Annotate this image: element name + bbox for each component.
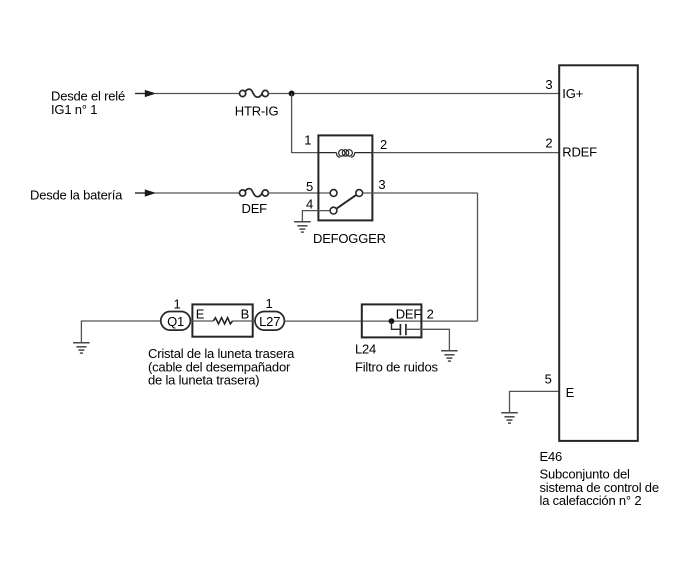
svg-text:E: E [196, 306, 205, 321]
wire: fuse DEF to DEFOGGER pin 5 contact [268, 192, 330, 194]
ground: rear window glass return (left) [73, 343, 90, 353]
resistor: zigzag element [213, 318, 232, 324]
wire: arrow to fuse HTR-IG [155, 93, 240, 95]
junction: capacitor tap inside L24 [389, 318, 395, 324]
wire: DEFOGGER pin 3 to vertical drop [363, 192, 478, 194]
text: Cristal de la luneta trasera (cable del desempañador de la luneta trasera) [148, 346, 295, 388]
svg-text:L24: L24 [355, 341, 376, 356]
svg-text:E46: E46 [540, 449, 563, 464]
svg-text:3: 3 [378, 177, 385, 192]
svg-text:E: E [566, 385, 575, 400]
wire: fuse HTR-IG to E46 pin 3 IG+ [268, 93, 558, 95]
ground: DEFOGGER pin 4 [294, 222, 311, 232]
svg-text:4: 4 [306, 196, 313, 211]
wire: L27 to noise filter L24 and through to pin 3 drop [284, 320, 477, 322]
wire: capacitor to ground [407, 329, 450, 350]
wire: resistor to connector L27 [233, 320, 256, 322]
svg-text:DEF: DEF [396, 306, 422, 321]
junction: node after HTR-IG fuse [289, 91, 295, 97]
svg-text:1: 1 [304, 133, 311, 148]
relay DEFOGGER box [318, 135, 372, 220]
ground: L24 noise filter [441, 351, 458, 361]
resistor box: rear window defogger grid [192, 304, 252, 336]
wire: E46 pin 5 to ground [510, 391, 559, 412]
svg-text:1: 1 [174, 296, 181, 311]
capacitor in L24 [392, 321, 406, 335]
svg-text:5: 5 [545, 372, 552, 387]
fuse HTR-IG [240, 89, 269, 97]
svg-text:Filtro de ruidos: Filtro de ruidos [355, 359, 438, 374]
wire: left ground up and right to connector Q1 [81, 321, 161, 343]
ECU box E46 [559, 65, 638, 441]
arrow: from battery feed [135, 189, 156, 196]
svg-text:3: 3 [545, 77, 552, 92]
svg-text:RDEF: RDEF [562, 145, 597, 160]
fuse DEF [240, 189, 269, 197]
svg-text:Q1: Q1 [167, 314, 184, 329]
svg-text:IG1 n° 1: IG1 n° 1 [51, 102, 97, 117]
text: L24 Filtro de ruidos [355, 341, 438, 374]
wire: Q1 into resistor [190, 320, 213, 322]
wire: arrow to fuse DEF [155, 192, 240, 194]
svg-text:Desde la batería: Desde la batería [30, 187, 123, 202]
switch: DEFOGGER contacts (pins 5, 4, 3) [330, 190, 363, 214]
svg-text:DEFOGGER: DEFOGGER [313, 231, 386, 246]
connector L27 [255, 312, 284, 331]
text: E46 Subconjunto del sistema de control de la calefacción n° 2 [540, 449, 659, 508]
coil: DEFOGGER relay coil between pins 1 and 2 [319, 150, 372, 158]
svg-text:1: 1 [266, 296, 273, 311]
wire: vertical drop from pin 3 to noise filter line [477, 193, 479, 321]
svg-text:2: 2 [427, 306, 434, 321]
wire: DEFOGGER pin 4 to ground [302, 211, 330, 222]
svg-text:2: 2 [545, 135, 552, 150]
svg-text:2: 2 [380, 137, 387, 152]
svg-text:DEF: DEF [242, 201, 268, 216]
svg-text:5: 5 [306, 179, 313, 194]
arrow: from IG1 relay feed [135, 90, 156, 97]
wire: junction down to DEFOGGER pin 1 [292, 94, 318, 153]
wire: DEFOGGER pin 2 to E46 pin 2 RDEF [373, 152, 559, 154]
noise filter L24 box [362, 304, 422, 337]
ground: E46 pin 5 [501, 413, 518, 423]
svg-text:HTR-IG: HTR-IG [235, 104, 279, 119]
svg-text:B: B [241, 306, 249, 321]
connector Q1 [161, 312, 191, 331]
text: source label "Desde el relé IG1 n° 1" [51, 89, 125, 118]
svg-text:IG+: IG+ [562, 86, 583, 101]
svg-text:la calefacción n° 2: la calefacción n° 2 [540, 493, 642, 508]
svg-text:L27: L27 [259, 314, 280, 329]
svg-text:de la luneta trasera): de la luneta trasera) [148, 373, 259, 388]
